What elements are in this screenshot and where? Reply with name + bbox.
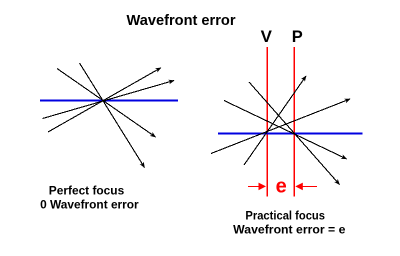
right ray C (shallow, up-right through V, arrow) (211, 99, 350, 154)
left ray 3 (steep, up-right, arrow) (48, 68, 161, 132)
left ray 2 (steep, down-right, arrow) (80, 63, 145, 168)
red vertical line V (266, 47, 268, 197)
right blue axis line (218, 133, 362, 135)
red vertical line P (293, 47, 295, 197)
red dimension arrow right (points left at P line) (301, 185, 317, 187)
svg-text:Wavefront error: Wavefront error (127, 12, 236, 29)
svg-text:V: V (261, 28, 272, 46)
right ray D (steep, up-right through V, arrow) (244, 76, 306, 165)
left blue axis line (40, 100, 178, 102)
red dimension arrow left (points right at V line) (248, 185, 260, 187)
svg-text:0 Wavefront error: 0 Wavefront error (40, 197, 139, 211)
svg-text:Wavefront error = e: Wavefront error = e (233, 223, 346, 237)
svg-text:e: e (276, 176, 287, 198)
right ray A (steep, down-right through P, arrow) (249, 82, 340, 185)
svg-text:Practical focus: Practical focus (245, 209, 325, 223)
svg-text:P: P (292, 28, 303, 46)
svg-text:Perfect focus: Perfect focus (49, 184, 125, 198)
left ray 1 (moderate, down-right, arrow) (57, 69, 156, 138)
left ray 4 (shallow, up-right, arrow) (43, 81, 175, 119)
right ray B (moderate, down-right through P, arrow) (224, 101, 347, 159)
